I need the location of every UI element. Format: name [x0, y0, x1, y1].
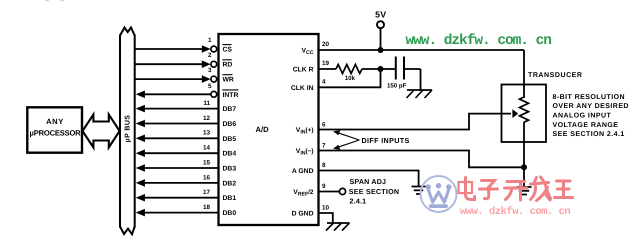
pin 6 VIN(+): number and name: [296, 122, 326, 136]
svg-text:A GND: A GND: [292, 168, 314, 175]
A/D converter U1 body: [219, 34, 319, 225]
watermark blue W logo: [421, 176, 457, 212]
svg-text:ANY: ANY: [46, 117, 64, 126]
pin 9 VREF/2: number, name, wire, open terminal: [293, 183, 345, 198]
watermark chinese character 发: [531, 177, 551, 201]
wire junction to ground: [523, 167, 525, 186]
pin 5 INTR: wire, arrowhead at bus, bubble, number, name: [136, 83, 239, 99]
pin 19 CLK R: number and name: [293, 60, 336, 74]
wire VIN(-) to transducer bottom node: [319, 151, 525, 168]
pin 7 VIN(-): number and name: [296, 143, 326, 157]
svg-text:DB0: DB0: [223, 210, 237, 217]
5V supply terminal: [375, 9, 386, 50]
pin 2 RD: wire, arrowhead, bubble, number, name: [136, 52, 233, 68]
signal ground at A GND: [412, 187, 426, 195]
svg-text:µPROCESSOR: µPROCESSOR: [30, 129, 82, 138]
svg-text:5: 5: [208, 83, 212, 90]
chassis ground at capacitor: [407, 69, 433, 98]
transducer box: [502, 85, 547, 143]
svg-text:9: 9: [322, 183, 326, 190]
svg-text:DB5: DB5: [223, 136, 237, 143]
bidirectional bus arrow between processor and bus: [83, 115, 120, 148]
svg-text:14: 14: [203, 145, 211, 152]
pin 17 DB1: wire, arrowhead, number, name: [136, 189, 237, 202]
svg-text:8: 8: [322, 162, 326, 169]
note 8-BIT RESOLUTION: [553, 94, 629, 138]
svg-text:RD: RD: [223, 62, 233, 69]
svg-text:10: 10: [322, 205, 330, 212]
wire 5V rail down to transducer: [523, 50, 525, 98]
junction dot CLK node: [378, 66, 384, 72]
pin 1 CS: wire, arrowhead, bubble, number, name: [136, 37, 233, 54]
svg-text:CLK IN: CLK IN: [291, 85, 314, 92]
pin 12 DB6: wire, arrowhead, number, name: [136, 115, 237, 128]
svg-text:17: 17: [203, 189, 211, 196]
svg-text:3: 3: [208, 67, 212, 74]
signal ground at transducer: [517, 187, 532, 195]
svg-text:5V: 5V: [375, 9, 386, 19]
svg-text:TRANSDUCER: TRANSDUCER: [528, 72, 583, 79]
svg-text:2: 2: [208, 52, 212, 59]
processor U2: ANY µPROCESSOR box: [27, 107, 82, 152]
pin 18 DB0: wire, arrowhead, number, name: [136, 204, 237, 217]
watermark chinese character 电: [459, 178, 475, 200]
svg-text:CS: CS: [223, 47, 233, 54]
svg-text:13: 13: [203, 130, 211, 137]
svg-text:20: 20: [322, 41, 330, 48]
resistor R1 10k: [336, 65, 381, 82]
svg-text:DB6: DB6: [223, 121, 237, 128]
pin 4 CLK IN: number, name, wire up to CLK node: [291, 69, 381, 92]
µP BUS (wide bus with break symbols): [120, 28, 135, 235]
svg-text:A/D: A/D: [256, 125, 270, 134]
junction dot 5V/VCC: [378, 47, 384, 53]
svg-text:µP BUS: µP BUS: [125, 115, 132, 143]
pin 3 WR: wire, arrowhead, bubble, number, name: [136, 67, 234, 84]
pin 16 DB2: wire, arrowhead, number, name: [136, 174, 237, 187]
stray blue marks top edge (cropped text remnant): [45, 0, 49, 1]
pin 14 DB4: wire, arrowhead, number, name: [136, 145, 237, 158]
svg-text:OVER ANY DESIRED: OVER ANY DESIRED: [553, 103, 629, 110]
svg-text:SPAN ADJ: SPAN ADJ: [350, 178, 387, 186]
svg-text:8-BIT RESOLUTION: 8-BIT RESOLUTION: [553, 94, 626, 101]
svg-text:18: 18: [203, 204, 211, 211]
svg-text:WR: WR: [223, 77, 234, 84]
pin 15 DB3: wire, arrowhead, number, name: [136, 159, 237, 172]
svg-text:6: 6: [322, 122, 326, 129]
svg-text:16: 16: [203, 174, 211, 181]
svg-text:4: 4: [322, 79, 326, 86]
potentiometer inside transducer: [520, 97, 529, 167]
svg-text:SEE SECTION: SEE SECTION: [349, 188, 399, 196]
svg-text:DB3: DB3: [223, 166, 237, 173]
svg-text:D GND: D GND: [292, 211, 314, 218]
svg-text:DIFF INPUTS: DIFF INPUTS: [362, 136, 410, 145]
svg-text:1: 1: [208, 37, 212, 44]
watermark chinese character 子: [480, 181, 498, 199]
capacitor C1 150 pF: [381, 57, 421, 90]
watermark chinese character 开: [505, 182, 528, 201]
svg-text:ANALOG INPUT: ANALOG INPUT: [553, 113, 612, 120]
wire VIN(+) to transducer wiper with arrowhead: [319, 109, 519, 129]
svg-text:DB1: DB1: [223, 195, 237, 202]
pin 13 DB5: wire, arrowhead, number, name: [136, 130, 237, 143]
svg-text:19: 19: [322, 60, 330, 67]
svg-text:150 pF: 150 pF: [387, 83, 407, 90]
pin 20 VCC: number and name: [301, 41, 329, 56]
watermark chinese character 王: [555, 181, 573, 198]
svg-text:CLK R: CLK R: [293, 67, 314, 74]
svg-text:INTR: INTR: [223, 92, 239, 99]
svg-text:DB2: DB2: [223, 180, 237, 187]
pin 11 DB7: wire, arrowhead, number, name: [136, 100, 237, 113]
svg-text:VOLTAGE RANGE: VOLTAGE RANGE: [553, 122, 619, 129]
wire VCC 5V rail: [319, 49, 525, 51]
svg-text:11: 11: [203, 100, 210, 107]
svg-text:www. dzkfw. com. cn: www. dzkfw. com. cn: [460, 206, 570, 218]
svg-text:10k: 10k: [345, 75, 356, 82]
pin 8 A GND: number, name, wire: [292, 162, 419, 186]
svg-text:2.4.1: 2.4.1: [350, 198, 367, 206]
svg-text:DB4: DB4: [223, 151, 237, 158]
svg-text:SEE SECTION 2.4.1: SEE SECTION 2.4.1: [553, 131, 625, 138]
svg-text:15: 15: [203, 159, 211, 166]
note SPAN ADJ: [349, 178, 399, 206]
pin 10 D GND: number, name, wire: [292, 205, 333, 223]
svg-text:DB7: DB7: [223, 106, 237, 113]
DIFF INPUTS callout with two arrows: [333, 130, 410, 149]
svg-text:7: 7: [322, 143, 326, 150]
junction dot transducer bottom: [521, 164, 527, 170]
svg-text:12: 12: [203, 115, 211, 122]
chassis ground at D GND: [326, 223, 350, 231]
svg-text:www. dzkfw. com. cn: www. dzkfw. com. cn: [406, 33, 552, 49]
